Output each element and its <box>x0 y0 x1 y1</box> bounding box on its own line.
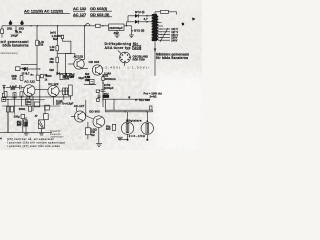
svg-text:25Ω: 25Ω <box>19 26 25 30</box>
svg-text:25V 70: 25V 70 <box>56 102 65 106</box>
svg-text:(-2,45V) · (-1,30V)•: (-2,45V) · (-1,30V)• <box>101 66 149 70</box>
svg-text:240V: 240V <box>171 39 177 43</box>
svg-text:[25] switchar så, att apparate: [25] switchar så, att apparaten <box>7 137 55 141</box>
svg-text:10V: 10V <box>70 75 75 79</box>
svg-text:Högtalare: Högtalare <box>126 118 142 122</box>
svg-text:BY2 (I): BY2 (I) <box>135 10 145 14</box>
svg-text:OD 603: OD 603 <box>89 110 100 114</box>
svg-text:OD 603 (II): OD 603 (II) <box>90 12 110 17</box>
svg-text:390Ω: 390Ω <box>19 107 26 111</box>
svg-text:i position [27] utan från alla: i position [27] utan från alla siden <box>7 144 61 148</box>
svg-text:OD 603: OD 603 <box>89 60 100 64</box>
svg-text:2×4Ω: 2×4Ω <box>150 95 158 99</box>
svg-text:i position [26] blir varken sp: i position [26] blir varken spänningar <box>7 141 65 145</box>
svg-text:39k: 39k <box>49 60 54 64</box>
svg-text:25V: 25V <box>11 87 16 91</box>
svg-text:10k: 10k <box>39 43 44 47</box>
svg-text:böda kanalerna: böda kanalerna <box>3 44 29 48</box>
svg-text:AC 122: AC 122 <box>24 80 35 84</box>
svg-text:4,7: 4,7 <box>144 17 149 21</box>
svg-text:4,7: 4,7 <box>26 72 30 76</box>
svg-text:AC 122(III) AC 122(III): AC 122(III) AC 122(III) <box>24 9 64 14</box>
svg-text:50µF: 50µF <box>79 77 85 80</box>
svg-text:50V: 50V <box>106 127 111 131</box>
svg-text:+0,5µF: +0,5µF <box>65 102 74 106</box>
svg-text:5Ω: 5Ω <box>91 133 95 137</box>
svg-text:25Ω: 25Ω <box>7 26 13 30</box>
svg-text:(mV): (mV) <box>50 31 56 35</box>
svg-text:100µ: 100µ <box>14 115 20 119</box>
svg-text:100µF: 100µF <box>11 34 19 38</box>
svg-text:+ BY2 (II): + BY2 (II) <box>132 29 145 33</box>
svg-text:3000mA: 3000mA <box>105 77 117 81</box>
svg-text:47: 47 <box>35 114 38 118</box>
svg-text:AC132: AC132 <box>74 55 84 59</box>
svg-text:2k3000µF: 2k3000µF <box>109 26 123 30</box>
svg-text:390: 390 <box>50 48 55 52</box>
svg-text:2×3~15Ω: 2×3~15Ω <box>129 134 146 138</box>
svg-text:4,7k: 4,7k <box>17 30 23 34</box>
svg-text:22k: 22k <box>12 77 17 81</box>
svg-text:5k6: 5k6 <box>49 68 54 72</box>
svg-text:AC-127: AC-127 <box>74 104 85 108</box>
svg-text:25V: 25V <box>17 124 22 127</box>
svg-text:12k: 12k <box>86 78 91 82</box>
svg-text:OD 603(I): OD 603(I) <box>90 6 108 11</box>
svg-text:3000µF: 3000µF <box>104 86 114 90</box>
svg-text:AC 127: AC 127 <box>73 12 86 17</box>
svg-text:AC 132: AC 132 <box>73 6 87 11</box>
svg-text:30V: 30V <box>114 31 119 35</box>
svg-text:för båda kanalerna: för båda kanalerna <box>156 56 188 60</box>
svg-text:4° TILL ben: 4° TILL ben <box>135 98 150 102</box>
svg-text:8k2: 8k2 <box>53 37 58 41</box>
svg-text:dimensionering: dimensionering <box>1 52 19 55</box>
